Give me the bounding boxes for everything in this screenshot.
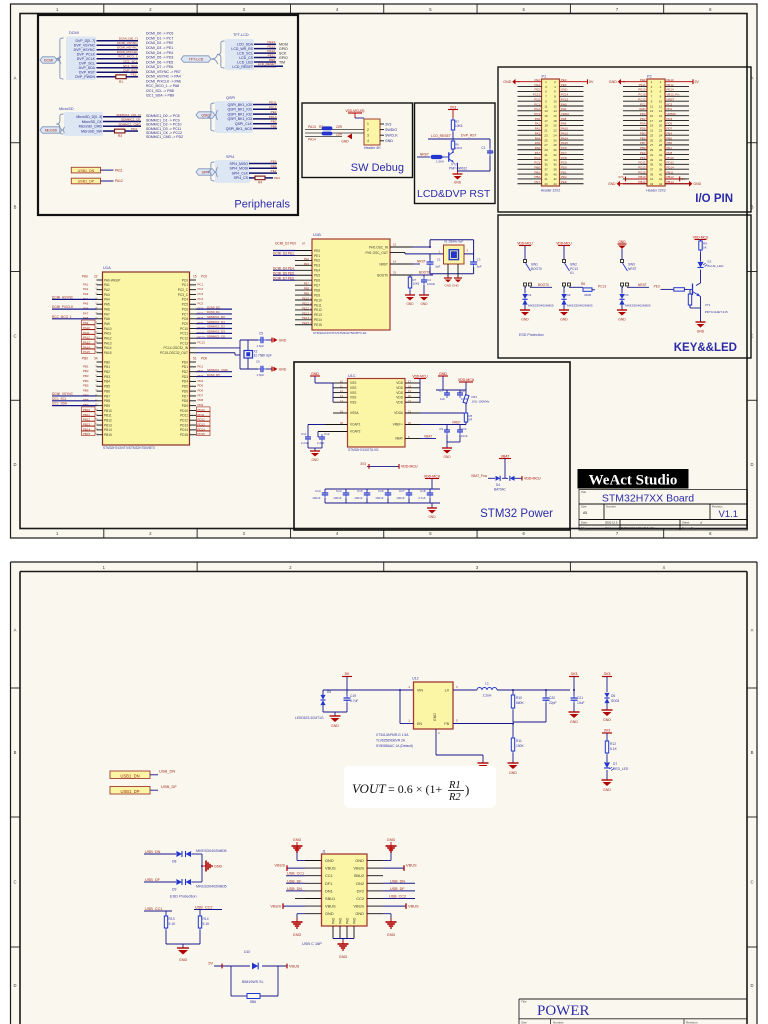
pin PA4 [97,298,103,300]
resistor R10 680K [512,689,514,691]
svg-text:GND: GND [355,911,364,916]
svg-text:PC4: PC4 [198,297,204,301]
svg-text:3V3: 3V3 [360,462,366,466]
svg-text:DCMI: DCMI [69,31,79,35]
svg-text:VDD-MCU: VDD-MCU [693,236,709,240]
svg-text:DCMI_D[0..7]: DCMI_D[0..7] [119,37,138,41]
gnd C9 C10 [446,435,448,442]
svg-text:Size: Size [581,505,587,509]
pin row wires [518,173,542,175]
svg-text:GND: GND [433,713,437,721]
svg-text:PA11: PA11 [83,331,90,335]
svg-text:D6: D6 [611,694,615,698]
svg-text:VOUT: VOUT [352,781,386,796]
svg-text:PE2: PE2 [304,257,310,261]
pin VREF+ [405,424,427,426]
svg-text:PD13: PD13 [269,115,277,119]
svg-text:PB0: PB0 [535,165,541,169]
svg-text:PB4: PB4 [667,131,673,135]
pin row wires [623,100,647,102]
gnd U12 [482,755,484,763]
switch SW1 [524,260,527,263]
pin row wires [518,110,542,112]
svg-text:39: 39 [650,172,654,176]
svg-text:C3: C3 [477,258,481,262]
svg-text:RED_LED: RED_LED [613,767,629,771]
capacitor C12 2.2uF [317,432,319,438]
capacitor C20 22pF [545,689,547,691]
nrst boot0 RC [413,263,420,265]
svg-text:VBUS: VBUS [325,866,336,871]
svg-text:PB5: PB5 [104,385,110,389]
svg-text:NRST: NRST [379,262,388,266]
svg-text:USB_DN: USB_DN [159,769,175,774]
svg-text:PC0: PC0 [534,97,540,101]
capacitor C10 [459,427,461,430]
svg-text:B5819WS SL: B5819WS SL [242,980,264,984]
svg-text:R1: R1 [119,80,123,84]
svg-text:PE7: PE7 [314,283,320,287]
svg-text:4.7uF: 4.7uF [350,699,358,703]
svg-text:PE9: PE9 [304,291,310,295]
svg-text:TFT-LCD: TFT-LCD [233,33,249,37]
svg-text:PD4: PD4 [131,127,137,131]
svg-text:PD4: PD4 [198,379,204,383]
pin row wires [623,154,647,156]
svg-text:STM32H743IGT6-VI1: STM32H743IGT6-VI1 [348,448,379,452]
zone column tick [383,562,385,572]
svg-text:DF2: DF2 [357,888,364,893]
svg-text:32: 32 [553,153,557,157]
svg-text:11: 11 [650,104,653,108]
resistor R14 5.1K [199,914,201,916]
gnd flag top left [516,81,520,83]
svg-text:34: 34 [553,158,557,162]
svg-text:PA7: PA7 [104,312,110,316]
pin VCAP1 [325,424,348,426]
svg-text:NRST: NRST [420,153,429,157]
svg-text:GND: GND [570,720,578,724]
svg-text:18: 18 [553,119,557,123]
zone row tick [11,687,21,689]
svg-text:PD0: PD0 [182,360,188,364]
pin PA8 [97,318,103,320]
zone column tick [383,4,385,14]
gnd VCAP [307,442,309,448]
svg-text:100nF: 100nF [427,282,435,286]
crystal grounds [447,264,449,278]
svg-text:PA2: PA2 [535,127,541,131]
svg-text:PA0: PA0 [535,117,541,121]
pin PC5 [190,303,197,305]
resistor R4 [255,176,265,180]
svg-text:PC12: PC12 [638,97,646,101]
pin PA10 [97,328,103,330]
svg-text:VDD-MCU: VDD-MCU [424,475,441,479]
svg-text:GND: GND [293,838,302,842]
svg-text:U12: U12 [412,677,419,681]
5V flag top right [689,81,693,83]
svg-text:PA2: PA2 [83,287,89,291]
svg-text:DCMI_D0: DCMI_D0 [207,305,220,309]
svg-text:PE11: PE11 [639,83,646,87]
svg-text:PB12: PB12 [104,419,112,423]
svg-text:28: 28 [659,143,663,147]
svg-text:B: B [14,750,17,755]
svg-text:PE13: PE13 [267,45,275,49]
svg-text:PC6: PC6 [561,146,567,150]
pin PB11 [97,414,103,416]
svg-text:SCK: SCK [279,51,287,55]
svg-text:VBUS: VBUS [408,904,419,909]
svg-text:D: D [13,983,16,988]
svg-text:PE14: PE14 [302,316,309,320]
svg-text:PA13: PA13 [308,125,316,129]
pin PA0 [97,279,103,281]
svg-text:16: 16 [553,114,557,118]
svg-text:PD2: PD2 [640,117,646,121]
svg-text:PC1: PC1 [198,282,204,286]
svg-text:PA9: PA9 [83,321,89,325]
svg-text:PA4: PA4 [535,136,541,140]
svg-text:SDMMC1_D[0..3]: SDMMC1_D[0..3] [116,113,140,117]
svg-text:C14: C14 [336,489,342,493]
svg-text:1.5pF: 1.5pF [257,373,265,377]
svg-text:PB10: PB10 [83,408,90,412]
svg-text:RCC_MCO_1 -> PA8: RCC_MCO_1 -> PA8 [146,84,179,88]
svg-text:MKESD0402M805: MKESD0402M805 [625,303,651,307]
svg-text:PD10: PD10 [180,409,188,413]
net USB_CC2 [194,909,222,911]
pin PE7 [295,284,312,286]
svg-text:R11: R11 [516,739,522,743]
esd mid gnd [201,854,203,882]
svg-text:PB0: PB0 [104,360,110,364]
transistor VT1 [696,283,701,286]
svg-text:K1: K1 [570,271,574,275]
svg-text:): ) [465,782,469,797]
svg-text:DCMI_D2 PE0: DCMI_D2 PE0 [275,242,296,246]
pin PC14-OSC32_IN [190,347,197,349]
pin row wires [518,154,542,156]
svg-text:PA6: PA6 [535,146,541,150]
pin PB7 [97,395,103,397]
svg-text:PB5: PB5 [83,384,89,388]
inductor L1 2.2uH [453,689,477,691]
switch SW2 [563,260,566,263]
net SDMMC1_CMD PD2 [196,371,232,373]
pin VCAP2 [318,431,348,433]
gnd bottom left [297,913,305,915]
svg-text:QSPI: QSPI [226,96,235,100]
svg-text:42: 42 [659,177,663,181]
svg-text:DVP_SDA: DVP_SDA [79,66,96,70]
svg-text:XT3410APMR-G 1.5A: XT3410APMR-G 1.5A [376,733,409,737]
svg-text:PA10: PA10 [83,326,90,330]
sheet inner border [20,571,747,573]
pin PC13 [190,342,197,344]
svg-text:PD0: PD0 [561,165,567,169]
svg-text:PD9: PD9 [198,403,204,407]
svg-text:35: 35 [544,163,548,167]
svg-text:DCMI_D2 -> PE0: DCMI_D2 -> PE0 [146,41,173,45]
svg-text:PB3: PB3 [640,131,646,135]
svg-text:File:: File: [581,526,587,530]
capacitor C18 4.7uF [429,489,431,493]
capacitor C7 [446,390,448,393]
svg-text:Number: Number [553,1021,564,1024]
section box Peripherals [38,15,298,215]
pin PA12 [97,337,103,339]
svg-text:GND: GND [311,458,319,462]
pin PB6 [97,390,103,392]
net DCMI_D5 PD3 [196,376,232,378]
svg-text:GND: GND [561,88,567,92]
pin PD3 [190,376,197,378]
resistor R9 5K [700,239,702,241]
svg-text:PC14-OSC32_IN: PC14-OSC32_IN [164,346,189,350]
svg-text:PC13: PC13 [533,93,541,97]
svg-text:PB6: PB6 [104,389,110,393]
pin row wires [518,134,542,136]
gnd C4 [423,285,425,295]
svg-text:USB_DF: USB_DF [287,879,302,883]
svg-text:C: C [13,880,16,885]
svg-text:5.1K: 5.1K [610,747,618,751]
svg-text:GND: GND [618,318,626,322]
svg-text:VSS: VSS [350,396,356,400]
pin row wires [518,124,542,126]
svg-text:VBAT: VBAT [424,434,432,438]
svg-text:MKESD0402M805: MKESD0402M805 [567,303,593,307]
svg-text:MicroSD_CK: MicroSD_CK [82,120,103,124]
diode D5 TVS [322,690,324,695]
svg-text:12: 12 [553,104,557,108]
svg-text:PE11: PE11 [268,54,276,58]
svg-text:2.2uF: 2.2uF [301,441,309,445]
svg-text:5V: 5V [695,80,700,84]
svg-text:42: 42 [553,177,557,181]
svg-text:SDMMC1_D2: SDMMC1_D2 [207,325,225,329]
svg-text:PE14: PE14 [667,88,674,92]
svg-text:PC2_C: PC2_C [178,288,189,292]
svg-text:VDD: VDD [396,391,403,395]
svg-text:330R: 330R [584,293,592,297]
svg-text:PA11: PA11 [104,332,112,336]
pin PE10 [295,299,312,301]
svg-text:PA1: PA1 [535,122,541,126]
svg-text:37: 37 [650,167,654,171]
svg-text:PB1: PB1 [83,364,89,368]
pin PA13 [97,342,103,344]
svg-text:36: 36 [659,163,663,167]
pin VSSA [333,412,348,414]
svg-text:NRST: NRST [638,283,647,287]
svg-text:VSS: VSS [350,391,356,395]
pin PD12 [190,419,197,421]
svg-text:D4: D4 [496,483,500,487]
svg-text:PE8: PE8 [314,288,320,292]
svg-text:PE3: PE3 [654,285,660,289]
svg-text:21: 21 [650,129,654,133]
svg-text:GND: GND [179,958,188,962]
vbus right flag [383,867,404,869]
svg-text:LCD_WR_RS: LCD_WR_RS [231,47,253,51]
pin PD8 [190,400,197,402]
capacitor C9 [446,427,448,430]
svg-text:GND: GND [387,838,396,842]
net USB_DN left [286,890,305,892]
GND pin stub U12 [435,729,437,755]
svg-text:PB2: PB2 [535,175,541,179]
svg-text:Peripherals: Peripherals [234,199,290,211]
svg-text:PE7: PE7 [304,282,310,286]
pad pins [332,926,334,939]
svg-text:PB0: PB0 [82,357,88,361]
svg-text:19: 19 [650,124,654,128]
svg-text:SDMMC1_CMD -> PD2: SDMMC1_CMD -> PD2 [146,135,183,139]
svg-text:PE2: PE2 [271,110,277,114]
svg-text:VB12_Pin: VB12_Pin [667,93,680,97]
svg-text:I2C1_SDA -> PB9: I2C1_SDA -> PB9 [146,94,174,98]
svg-text:100nF: 100nF [312,496,320,500]
svg-text:D3: D3 [625,293,629,297]
svg-text:GND: GND [214,864,223,868]
svg-text:PC2: PC2 [534,107,540,111]
svg-text:41: 41 [650,177,654,181]
svg-text:3V3: 3V3 [604,729,610,733]
svg-text:PC9: PC9 [182,322,188,326]
svg-text:USB_DN: USB_DN [390,879,405,883]
svg-text:3V3: 3V3 [385,122,391,126]
svg-text:C11: C11 [301,432,307,436]
svg-text:C18: C18 [420,489,426,493]
svg-text:PA5: PA5 [535,141,541,145]
svg-text:100nF: 100nF [396,496,404,500]
svg-text:RCC_MCO_1: RCC_MCO_1 [118,55,137,59]
svg-text:DVP_XCLK: DVP_XCLK [77,57,96,61]
capacitor C1 100nF [489,139,491,148]
svg-text:P2: P2 [647,75,652,79]
svg-text:DCMI_D6 -> PE5: DCMI_D6 -> PE5 [146,60,173,64]
svg-text:14: 14 [553,109,557,113]
svg-text:15: 15 [193,275,197,279]
svg-text:LCD_CS: LCD_CS [239,56,253,60]
svg-text:15: 15 [650,114,654,118]
ground [457,171,459,174]
svg-text:PC13: PC13 [180,341,188,345]
svg-text:GND: GND [697,330,705,334]
svg-text:PD8: PD8 [198,398,204,402]
svg-text:10: 10 [553,99,557,103]
pin PB5 [97,385,103,387]
pin PE15 [295,324,312,326]
gnd D6 [602,709,613,711]
svg-text:PA10: PA10 [561,127,568,131]
emitter resistor [689,292,691,294]
svg-text:USB_DF: USB_DF [161,784,177,789]
svg-text:2020.12.5: 2020.12.5 [605,521,618,525]
svg-text:PE8: PE8 [561,180,567,184]
pin row wires [623,168,647,170]
svg-text:10K6: 10K6 [455,124,463,128]
pin row wires [623,183,647,185]
svg-text:SPI4_MOSI: SPI4_MOSI [230,167,249,171]
svg-text:PC3: PC3 [667,102,673,106]
svg-text:SDMMC1_CK: SDMMC1_CK [207,334,225,338]
svg-text:PD11: PD11 [269,101,277,105]
svg-text:PB11: PB11 [104,414,112,418]
svg-text:PE10: PE10 [667,78,674,82]
svg-text:PD5: PD5 [182,385,188,389]
svg-text:GND: GND [609,80,617,84]
pin PC9 [190,323,197,325]
harness QSPI [215,101,253,133]
wires to header [305,129,364,131]
gnd R11 [508,762,519,764]
pin PE2 [295,259,312,261]
svg-text:PA0-WKUP: PA0-WKUP [104,278,120,282]
zone column tick [663,4,665,14]
net USB_DN right [383,882,415,884]
capacitor C16 100nF [387,489,389,493]
svg-text:PD3: PD3 [182,375,188,379]
svg-text:3V3: 3V3 [450,106,456,110]
pin VSS group [333,382,348,384]
svg-text:DCMI_D0 -> PC6: DCMI_D0 -> PC6 [146,32,173,36]
svg-text:R8: R8 [581,282,585,286]
svg-text:LCD_LED: LCD_LED [237,60,253,64]
pin PA2 [97,289,103,291]
svg-text:Number: Number [606,505,616,509]
pin row wires [623,149,647,151]
svg-text:Revision: Revision [712,505,723,509]
svg-text:PB8: PB8 [104,399,110,403]
svg-text:PD1: PD1 [667,107,673,111]
svg-text:PE5: PE5 [535,88,541,92]
svg-text:PD8: PD8 [182,399,188,403]
svg-text:C10: C10 [461,427,467,431]
svg-text:PD11: PD11 [638,161,645,165]
svg-text:QSPI_BK1_IO3: QSPI_BK1_IO3 [227,117,252,121]
sheet background [11,562,758,1024]
svg-text:27: 27 [650,143,654,147]
svg-text:PB6: PB6 [83,389,89,393]
svg-text:DCMI_D3 -> PE1: DCMI_D3 -> PE1 [146,46,173,50]
svg-text:PH1: PH1 [561,107,567,111]
svg-text:PD13: PD13 [638,165,646,169]
svg-text:PA6: PA6 [104,307,110,311]
sheet inner border [20,14,747,529]
svg-text:PNP-BW012: PNP-BW012 [449,167,467,171]
svg-text:22R: 22R [336,125,343,129]
svg-text:PC13: PC13 [598,285,606,289]
svg-text:SDMMC1_D3: SDMMC1_D3 [207,330,225,334]
pin PH0.OSC_IN [390,246,413,248]
svg-text:12: 12 [659,104,663,108]
transistor VT2 PNP [444,156,449,158]
svg-text:PAD: PAD [331,917,335,924]
svg-text:DVP_VSYNC: DVP_VSYNC [74,44,96,48]
svg-text:QSPI_BK1_NCS: QSPI_BK1_NCS [226,127,253,131]
svg-text:PD1: PD1 [182,365,188,369]
svg-text:PD12: PD12 [667,161,675,165]
svg-text:D2: D2 [567,293,571,297]
pin row wires [518,90,542,92]
svg-text:D5: D5 [327,690,331,694]
svg-text:22R: 22R [336,132,343,136]
svg-text:EN: EN [417,722,422,726]
